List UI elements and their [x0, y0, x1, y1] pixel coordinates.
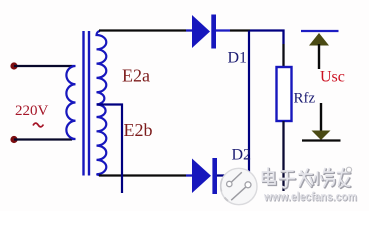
Usc top reference line — [301, 30, 339, 32]
terminal dot bottom — [10, 136, 17, 143]
transformer secondary winding E2b — [97, 105, 107, 176]
wire secondary bottom to D2 — [99, 174, 186, 176]
wire cathode bus vertical — [248, 31, 250, 176]
Usc down arrow — [320, 103, 322, 131]
svg-text:220V: 220V — [15, 103, 49, 119]
diode D2 — [192, 159, 211, 194]
wire D2 cathode to bus — [217, 174, 249, 176]
wire D1 anode lead — [186, 29, 192, 31]
wire D2 anode lead — [186, 174, 192, 176]
transformer primary winding — [66, 66, 75, 139]
transformer secondary winding E2a — [96, 31, 106, 105]
terminal dot top — [10, 62, 17, 69]
watermark text dian zi fa shao you (drawn strokes) — [263, 168, 351, 188]
wire secondary top to D1 — [99, 29, 186, 31]
Usc up arrow — [309, 33, 329, 46]
wire D1 cathode to Rfz corner — [216, 29, 230, 31]
watermark logo — [221, 168, 257, 204]
watermark registered mark — [346, 167, 351, 172]
diode D1 — [192, 15, 210, 48]
resistor Rfz — [277, 67, 292, 121]
Usc bottom reference line — [302, 139, 341, 141]
svg-text:D2: D2 — [232, 147, 252, 164]
svg-text:Rfz: Rfz — [294, 91, 316, 107]
svg-text:E2a: E2a — [122, 66, 150, 86]
wire Rfz bottom lead — [282, 121, 284, 191]
svg-text:Usc: Usc — [320, 69, 345, 86]
transformer core — [84, 31, 90, 176]
svg-text:E2b: E2b — [124, 120, 153, 140]
svg-text:www.elecfans.com: www.elecfans.com — [263, 192, 357, 204]
wire top-left — [14, 65, 72, 67]
label ~ — [33, 123, 43, 127]
svg-text:D1: D1 — [228, 50, 248, 67]
wire bottom-left — [14, 138, 72, 140]
wire center tap — [97, 105, 122, 194]
